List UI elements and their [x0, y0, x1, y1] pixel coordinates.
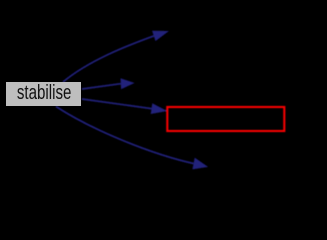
arrowhead edge3 [151, 103, 168, 114]
edge stabilise->node4 (bottom) [56, 107, 194, 164]
edge stabilise->red node [82, 99, 152, 109]
arrowhead edge1 [152, 31, 169, 41]
edge stabilise->node2 (short middle) [82, 84, 121, 89]
truncated node (red outline) [167, 107, 284, 131]
arrowhead edge2 [121, 78, 135, 89]
node stabilise [6, 82, 81, 107]
edge stabilise->node1 (top) [63, 36, 154, 82]
arrowhead edge4 [192, 158, 208, 170]
